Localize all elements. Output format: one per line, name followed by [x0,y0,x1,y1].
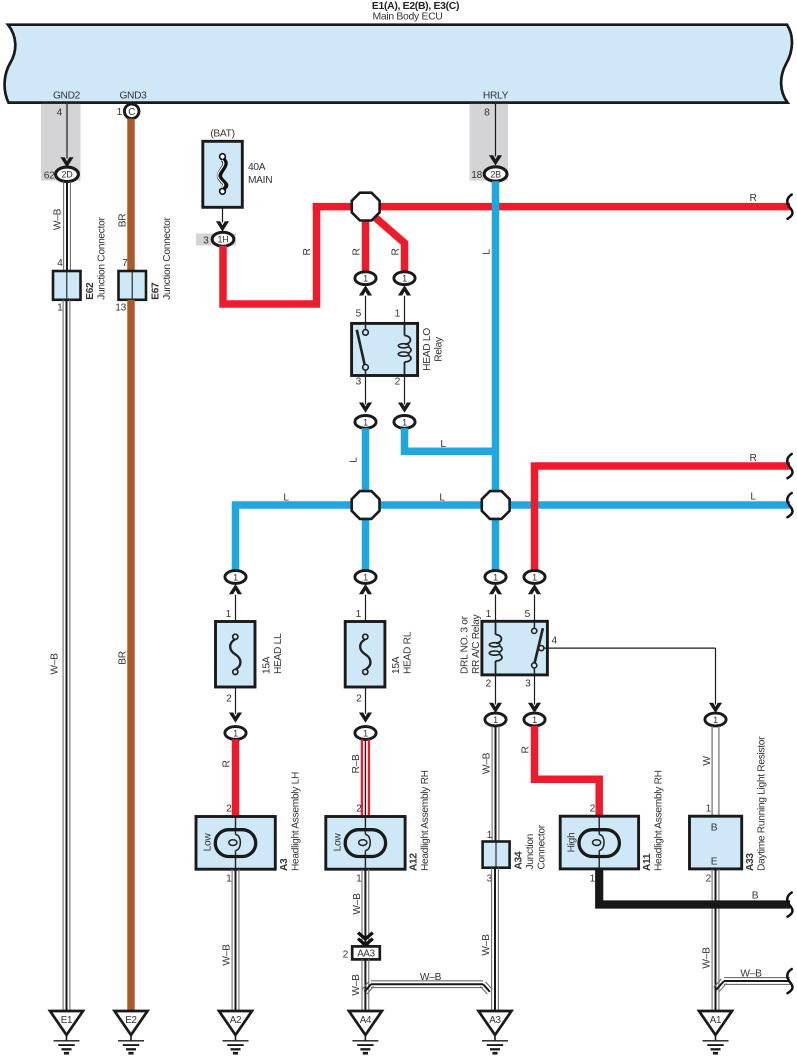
headlight assembly RH A11 (High beam) [560,770,664,871]
ground E1 [50,1011,83,1053]
ground A1 [699,1011,732,1053]
svg-text:2D: 2D [62,170,74,180]
svg-text:A1: A1 [710,1015,721,1026]
svg-text:1: 1 [395,309,401,320]
wire R from 1H to junction octagon [223,207,317,304]
connector 1 above fuse HEAD RL [355,571,376,622]
connector 1 above relay pin 5 [355,272,376,324]
wire R stub octagon to HEAD LO relay pin 5 connector [351,207,365,272]
svg-text:18: 18 [471,170,482,181]
svg-text:W–B: W–B [352,893,363,915]
svg-text:L: L [439,493,445,504]
svg-text:E67: E67 [150,282,161,300]
svg-text:W–B: W–B [351,974,362,996]
svg-text:13: 13 [115,303,126,314]
headlight assembly RH A12 (Low beam) [326,770,431,871]
svg-text:1: 1 [532,572,537,582]
svg-text:R: R [749,453,756,464]
svg-text:5: 5 [356,309,362,320]
wire W-B headlight A3 to ground A2 [221,869,239,1011]
svg-text:(BAT): (BAT) [210,129,234,140]
junction connector E67 [119,217,173,300]
svg-text:2: 2 [356,694,362,705]
svg-text:E1(A), E2(B), E3(C): E1(A), E2(B), E3(C) [372,1,459,12]
svg-text:1: 1 [233,728,238,738]
svg-text:A3: A3 [279,858,290,871]
svg-text:1: 1 [706,804,712,815]
svg-text:1: 1 [493,715,498,725]
svg-text:1: 1 [493,572,498,582]
svg-text:W–B: W–B [481,934,492,956]
DRL relay pin 2 lead to connector [485,675,506,726]
svg-text:1: 1 [363,572,368,582]
fuse HEAD LL output lead [225,687,246,739]
svg-text:1: 1 [713,715,718,725]
fuse output lead with arrow [216,207,229,231]
svg-text:E1: E1 [61,1015,72,1026]
svg-text:DRL NO. 3 or: DRL NO. 3 or [459,615,470,674]
headlight assembly LH A3 (Low beam) [196,772,301,871]
svg-text:W–B: W–B [52,208,63,230]
svg-text:R: R [302,248,313,255]
wire BR from E67 to ground E2 [115,300,131,1011]
svg-text:62: 62 [44,170,55,181]
relay DRL NO. 3 or RR A/C Relay [459,614,557,675]
svg-text:4: 4 [57,108,63,119]
svg-text:1: 1 [363,274,368,284]
svg-text:GND2: GND2 [53,91,81,102]
DRL relay pin 3 lead to connector [524,675,545,726]
connector 1 above relay pin 1 [394,272,415,324]
wire L main horizontal [236,492,791,571]
svg-text:HEAD LL: HEAD LL [273,633,284,674]
GND3 pin 1 connector C [117,104,139,119]
svg-text:Connector: Connector [536,824,547,869]
GND2 pin 4 lead with arrow [57,104,74,168]
wire L stub J2 down to HEAD RL fuse connector [362,505,370,570]
svg-text:R: R [749,193,756,204]
svg-text:2: 2 [226,694,232,705]
wire W-B resistor A33 to ground A1 [701,869,719,1011]
svg-text:2: 2 [343,949,349,960]
wire R DRL pin 3 to headlight A11 pin 2 [520,726,599,816]
connector AA3 (pin 2) [343,946,380,960]
svg-text:A11: A11 [642,853,653,871]
svg-text:A33: A33 [745,853,756,871]
svg-text:1: 1 [226,609,232,620]
svg-text:W–B: W–B [701,947,712,969]
fuse 15A HEAD RL [345,622,413,688]
wire R-B fuse HEAD RL to headlight A12 pin 2 [351,739,369,816]
ground A4 [349,1011,382,1053]
HRLY pin 8 shaded connector area [470,104,509,181]
wire L from relay pin 3 connector down to junction J2 [348,428,365,492]
GND2 pin 4 shaded connector area [41,104,81,181]
connector 1 above fuse HEAD LL [225,571,246,622]
wire W-B branch between A4 and A3 grounds [362,972,493,994]
svg-text:A2: A2 [230,1015,241,1026]
wire W-B A34 to ground A3 [481,868,499,1011]
wire R break at right edge [787,195,792,219]
svg-text:Junction Connector: Junction Connector [96,217,107,300]
relay HEAD LO [352,323,445,375]
svg-text:AA3: AA3 [357,948,375,959]
svg-text:W–B: W–B [740,969,762,980]
svg-text:Junction: Junction [525,834,536,870]
svg-text:E2: E2 [125,1015,136,1026]
svg-text:1: 1 [356,609,362,620]
svg-text:2: 2 [395,377,401,388]
wire W DRL pin 4 connector to resistor A33 pin 1 [702,726,719,816]
junction connector E62 [53,217,107,300]
HRLY pin 8 lead with arrow [484,104,502,166]
connector 1 above DRL relay pin 5 [524,571,545,622]
svg-text:BR: BR [117,651,128,665]
svg-text:2: 2 [356,804,362,815]
svg-text:A12: A12 [408,853,419,871]
svg-text:HEAD RL: HEAD RL [402,631,413,674]
svg-text:1: 1 [363,417,368,427]
svg-text:E: E [711,857,718,868]
svg-text:W–B: W–B [221,944,232,966]
svg-text:High: High [566,833,577,853]
svg-text:W–B: W–B [481,752,492,774]
svg-text:L: L [283,493,289,504]
svg-text:Junction Connector: Junction Connector [162,217,173,300]
svg-text:2: 2 [706,874,712,885]
svg-text:1: 1 [57,303,63,314]
junction octagon J3 [482,491,510,519]
wire W-B DRL pin 2 to junction connector A34 [481,726,499,842]
svg-text:HEAD LO: HEAD LO [422,328,433,371]
svg-text:GND3: GND3 [119,91,147,102]
svg-text:E62: E62 [85,282,96,300]
svg-text:R: R [221,760,232,767]
fusible link 40A MAIN [203,129,272,208]
svg-text:1: 1 [226,874,232,885]
daytime running light resistor A33 [690,736,768,871]
ground A3 [479,1011,512,1053]
svg-text:L: L [750,492,756,503]
svg-text:R: R [390,248,401,255]
svg-text:HRLY: HRLY [483,91,509,102]
fuse HEAD RL output lead [355,687,376,739]
junction octagon J1 [352,193,380,221]
svg-text:1: 1 [233,572,238,582]
svg-text:A34: A34 [513,851,524,869]
svg-text:15A: 15A [261,656,272,674]
wire B break at right edge [787,893,792,917]
svg-text:W–B: W–B [49,653,60,675]
svg-text:3: 3 [356,377,362,388]
svg-text:R–B: R–B [351,754,362,773]
svg-text:Relay: Relay [433,336,444,362]
DRL relay pin 4 wire to connector [544,648,726,726]
junction octagon J2 [352,491,380,519]
relay pin 3 lead to connector [355,376,376,429]
svg-text:L: L [440,439,446,450]
svg-text:3: 3 [203,235,209,246]
svg-text:1H: 1H [218,235,229,245]
svg-text:7: 7 [122,258,128,269]
svg-text:B: B [752,891,759,902]
relay pin 2 lead to connector [394,376,415,429]
svg-text:Headlight Assembly LH: Headlight Assembly LH [290,772,301,871]
wire W-B headlight A12 to shield connector AA3 [352,869,369,946]
wire L stub J3 down to DRL relay connector [492,505,500,570]
svg-text:R: R [520,746,531,753]
svg-text:1: 1 [402,274,407,284]
ground E2 [115,1011,148,1053]
svg-text:15A: 15A [391,656,402,674]
wire R diagonal octagon to HEAD LO relay pin 1 connector [369,212,405,272]
svg-text:1: 1 [532,715,537,725]
wire R lower horizontal to right edge [535,453,791,570]
svg-text:Low: Low [332,833,343,852]
wire W-B from 2D to junction E62 [52,182,70,271]
svg-text:B: B [711,823,718,834]
svg-text:MAIN: MAIN [248,175,272,186]
svg-text:1: 1 [486,609,492,620]
wire W-B from E62 to ground E1 [49,300,70,1011]
svg-text:2: 2 [486,679,492,690]
ground A2 [219,1011,252,1053]
svg-text:A3: A3 [489,1015,501,1026]
connector 2B (pin 18) [471,167,507,181]
svg-text:4: 4 [552,636,558,647]
svg-text:4: 4 [57,258,63,269]
fuse 15A HEAD LL [216,622,284,688]
svg-text:1: 1 [590,874,596,885]
wire W-B branch from right edge to ground A1 [714,969,790,993]
svg-text:RR A/C Relay: RR A/C Relay [471,614,482,674]
svg-text:L: L [481,249,492,255]
wire B headlight A11 to right edge [590,869,790,905]
svg-text:5: 5 [525,609,531,620]
svg-text:2: 2 [226,804,232,815]
svg-text:Low: Low [202,833,213,852]
wire W-B AA3 to ground A4 [351,959,369,1011]
svg-text:R: R [351,248,362,255]
svg-text:C: C [128,107,135,118]
wire R fuse HEAD LL to headlight A3 pin 2 [221,739,235,816]
svg-text:W: W [702,756,713,766]
svg-text:1: 1 [117,107,123,118]
svg-text:3: 3 [525,679,531,690]
svg-text:1: 1 [402,417,407,427]
svg-text:1: 1 [487,830,493,841]
junction connector A34 [483,824,548,869]
svg-text:L: L [348,457,359,463]
svg-text:1: 1 [363,728,368,738]
connector 1H (pin 3) [196,232,236,246]
wire BR from C to junction E67 [117,119,131,271]
svg-text:2: 2 [590,804,596,815]
svg-text:Daytime Running Light Resistor: Daytime Running Light Resistor [756,736,767,871]
svg-text:Headlight Assembly RH: Headlight Assembly RH [420,770,431,871]
svg-text:1: 1 [356,874,362,885]
wire L from 2B down to junction J3 [481,181,495,505]
connector 2D (pin 62) [44,167,79,181]
svg-text:A4: A4 [360,1015,372,1026]
wire R main horizontal to right edge [313,193,790,207]
svg-text:Headlight Assembly RH: Headlight Assembly RH [653,770,664,871]
svg-text:BR: BR [117,214,128,228]
wire R break at right edge lower [787,454,792,478]
svg-text:40A: 40A [248,162,266,173]
wire W-B break at right edge [787,969,792,993]
svg-text:Main Body ECU: Main Body ECU [372,12,442,23]
svg-text:8: 8 [484,108,490,119]
Main Body ECU E1(A),E2(B),E3(C) band [5,1,792,103]
shield chevrons above AA3 [358,933,373,945]
connector 1 above DRL relay pin 1 [485,571,506,622]
svg-text:W–B: W–B [420,972,442,983]
svg-text:2B: 2B [490,169,501,179]
wire L break at right edge [787,493,792,517]
wire L from relay pin 2 connector to HRLY feed [405,428,496,451]
